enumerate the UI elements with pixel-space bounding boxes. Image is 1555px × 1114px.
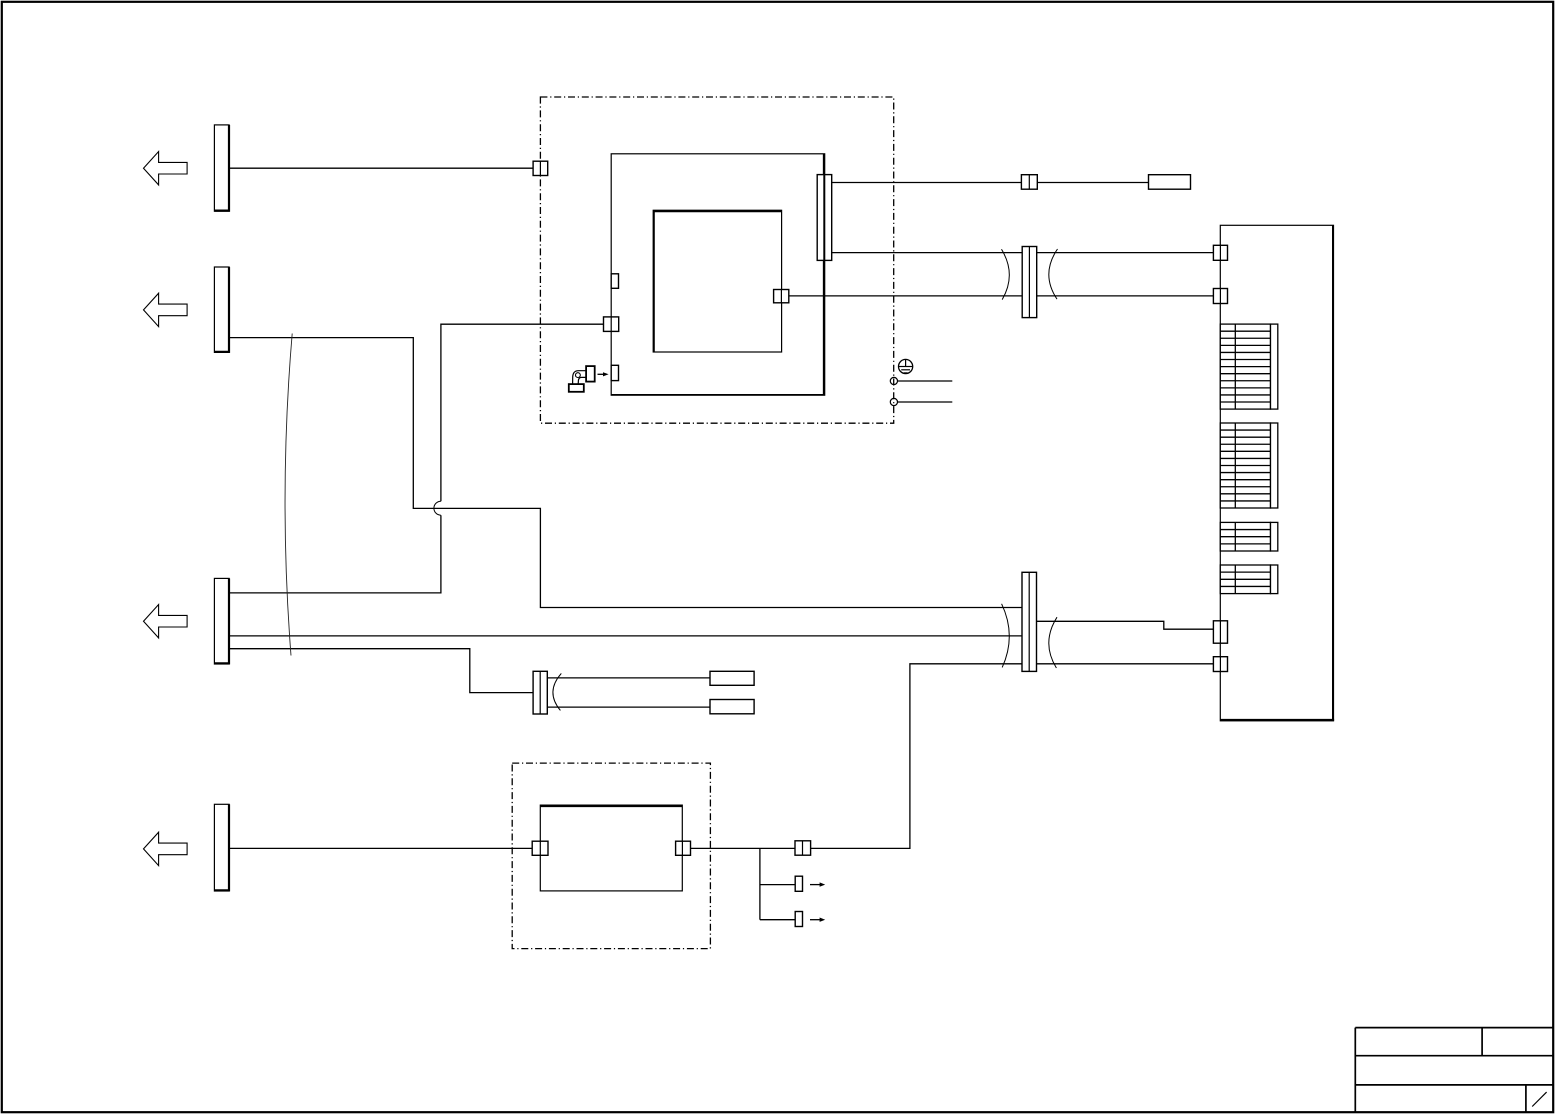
wire W9 display module to main board J2: [789, 295, 1214, 297]
wire W10 bottom module run to main board J6: [691, 664, 1023, 849]
cable end sleeve R1: [1149, 175, 1191, 190]
wire W3 harness C top conductor with crossover hop: [229, 515, 441, 593]
cable end sleeve R3: [710, 700, 754, 714]
title block: [1355, 1028, 1553, 1112]
connector X2 on case left wall: [604, 317, 619, 332]
connector X4 sensor left: [532, 841, 548, 855]
shielded cable pass-through S2: [1002, 572, 1057, 671]
protective earth symbol: [899, 359, 913, 373]
bulkhead plate 1: [214, 125, 229, 211]
inline connector X3: [1021, 175, 1037, 190]
off-sheet arrow 1: [144, 152, 188, 185]
connector X5 sensor right: [676, 841, 691, 855]
title block revision slash: [1532, 1092, 1546, 1106]
cable end sleeve R2: [710, 671, 754, 685]
pin socket P3 upper on case wall: [611, 274, 618, 289]
connector P1 tall on case right wall: [817, 175, 832, 261]
stub arrow 1: [810, 882, 825, 886]
stub plug P5: [795, 876, 802, 891]
wire W13 twisted pair tails: [547, 677, 710, 679]
earthing pigtail plug: [569, 366, 595, 392]
pin header H4: [1220, 565, 1278, 594]
connector J5: [1213, 621, 1227, 643]
wire W6 harness D to bottom module: [229, 847, 532, 849]
wire W4 harness C middle conductor: [229, 635, 1022, 637]
stub arrow 2: [810, 918, 825, 922]
pin header H1: [1220, 324, 1278, 409]
pin header H3: [1220, 522, 1278, 551]
wire W8 control unit to main board J1: [832, 252, 1214, 254]
off-sheet arrow 3: [144, 605, 188, 638]
connector P2 on inner board: [774, 290, 789, 303]
connector J1: [1213, 245, 1227, 260]
cable bundle arc: [285, 334, 292, 656]
shielded cable pass-through S1: [1002, 247, 1058, 318]
wire W1 harness A to connector X1: [229, 167, 533, 169]
bulkhead plate 2: [214, 267, 229, 352]
wire W11 shield drain to main board J5: [1037, 621, 1214, 629]
connector X1 on enclosure wall: [533, 161, 548, 175]
control unit inner board: [653, 210, 781, 352]
stub plug P6: [795, 912, 802, 927]
connector J2: [1213, 289, 1227, 304]
earth terminal 1: [890, 377, 897, 384]
bulkhead plate 4: [214, 804, 229, 891]
wire W14 earth terminal stubs: [898, 380, 953, 382]
inline connector X6: [795, 841, 811, 855]
twisted pair breakout connector S3: [533, 671, 561, 714]
enclosure (dash-dot) control unit: [540, 97, 893, 423]
earth terminal 2: [890, 398, 897, 405]
wire W12 branch stubs from junction: [759, 848, 761, 919]
wire W5 harness C lower conductor to twisted pair: [229, 649, 533, 693]
off-sheet arrow 2: [144, 293, 188, 326]
off-sheet arrow 4: [144, 832, 188, 865]
control unit outer case: [611, 154, 825, 395]
pin socket P4 lower on case wall: [611, 365, 618, 380]
pin header H2: [1220, 423, 1278, 508]
bulkhead plate 3: [214, 578, 229, 664]
main board / backplane block: [1220, 225, 1334, 721]
connector J6: [1213, 657, 1227, 672]
pigtail mating arrow: [598, 372, 609, 376]
enclosure (dash-dot) bottom sensor module: [512, 763, 710, 949]
wire W7 control unit top output: [832, 182, 1022, 184]
wire W2 harness B to module P1 via risers: [229, 338, 1022, 608]
sensor module body: [540, 805, 682, 891]
